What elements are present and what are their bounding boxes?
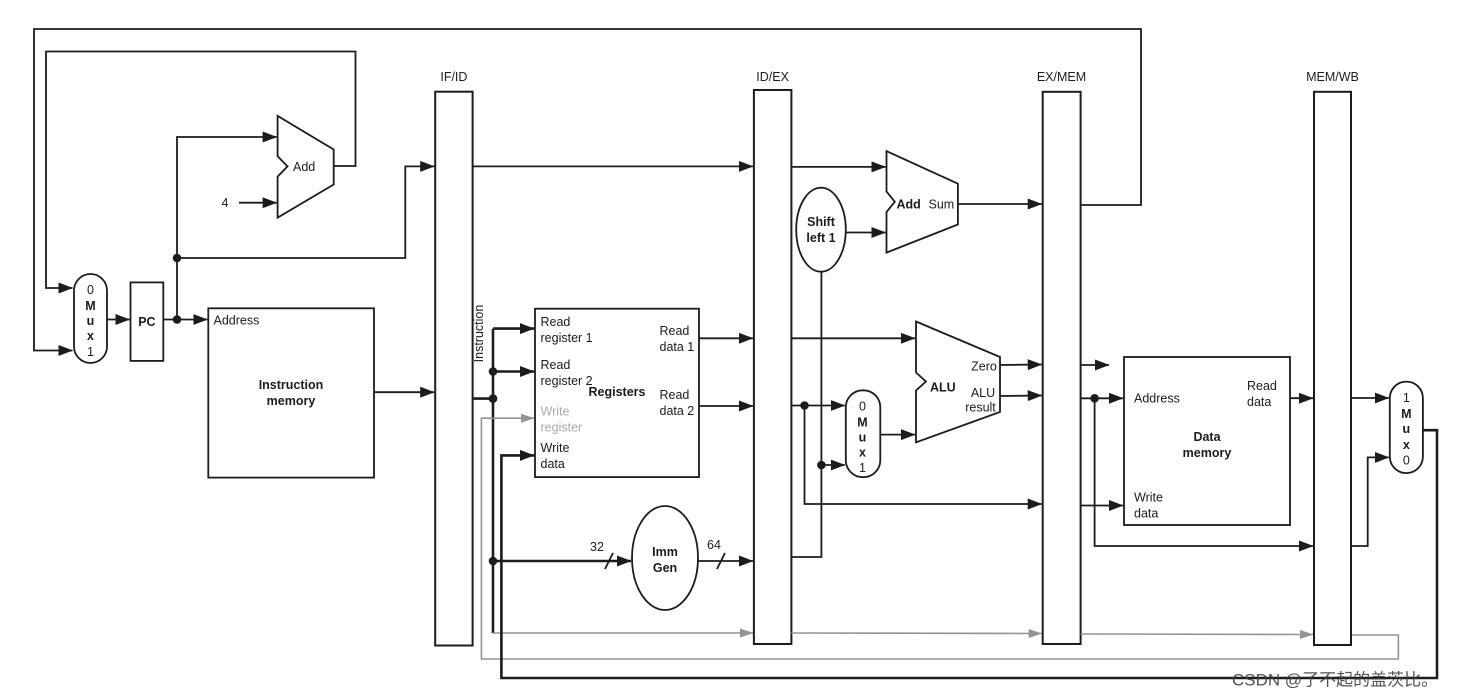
component Registers (535, 309, 699, 477)
slash 32 (605, 553, 613, 569)
wire Mux2 to ALU input 2 (880, 434, 915, 436)
wire Read data 1 to ID/EX (699, 337, 753, 339)
svg-text:Read: Read (660, 388, 690, 402)
pipeline register EX/MEM (1037, 70, 1086, 644)
svg-text:memory: memory (267, 394, 316, 408)
slash 64 (717, 553, 725, 569)
svg-text:64: 64 (707, 538, 721, 552)
adder Add2 (887, 151, 958, 253)
svg-text:0: 0 (87, 283, 94, 297)
wire PC+4 loop from Add1 output to Mux1 input 0 (46, 52, 356, 289)
wire immediate from ID/EX up to Shift left 1 (791, 272, 821, 558)
wire to Read register 1 (493, 327, 534, 330)
wire read data to Mux3 input 1 (1351, 397, 1389, 399)
wire ALU result to Data memory Address (1081, 397, 1123, 399)
svg-text:register 2: register 2 (541, 374, 593, 388)
component Instruction memory (208, 308, 374, 477)
node ALU result junction (1090, 394, 1099, 403)
svg-text:left 1: left 1 (806, 231, 835, 245)
wire ALU result to Mux3 input 0 (1351, 457, 1389, 546)
wire read data 2 down to EX/MEM (memory write data) (805, 406, 1042, 505)
pipeline register IF/ID (435, 70, 472, 646)
svg-text:1: 1 (859, 461, 866, 475)
component Imm Gen (632, 506, 698, 610)
svg-text:Shift: Shift (807, 215, 836, 229)
svg-text:x: x (1403, 438, 1410, 452)
svg-text:Data: Data (1193, 430, 1221, 444)
svg-text:IF/ID: IF/ID (440, 70, 467, 84)
pipeline register ID/EX (754, 70, 792, 644)
wire destination register tap to ID/EX (gray) (493, 632, 753, 634)
wire Instruction memory output to IF/ID (374, 391, 434, 393)
node imm gen junction (489, 557, 498, 566)
svg-text:M: M (1401, 407, 1411, 421)
svg-text:data: data (1247, 395, 1271, 409)
wire Shift left 1 to Add2 bottom input (846, 232, 886, 234)
wire write data feedback (black) (501, 430, 1437, 678)
mux M1 (74, 274, 107, 363)
wire instruction bus vertical (492, 329, 495, 633)
svg-text:Read: Read (1247, 379, 1277, 393)
wire Read data to MEM/WB (1290, 397, 1313, 399)
wire ID/EX to ALU input 1 (791, 337, 915, 339)
svg-text:CSDN @了不起的盖茨比。: CSDN @了不起的盖茨比。 (1232, 671, 1438, 690)
wire Zero stub out of EX/MEM (1081, 364, 1109, 366)
wire Mux1 to PC (107, 319, 130, 321)
svg-text:data 1: data 1 (660, 340, 695, 354)
svg-text:Gen: Gen (653, 561, 677, 575)
svg-text:Instruction: Instruction (259, 378, 324, 392)
svg-text:M: M (857, 416, 867, 430)
svg-text:ALU: ALU (930, 381, 956, 395)
svg-text:1: 1 (87, 345, 94, 359)
pipeline register MEM/WB (1306, 70, 1359, 645)
alu ALU (916, 322, 1000, 443)
svg-text:Registers: Registers (589, 385, 646, 399)
wire PC to IF/ID (177, 166, 434, 258)
wire to Read register 2 (493, 370, 534, 373)
node PC output junction (173, 315, 182, 324)
adder Add1 (278, 116, 334, 218)
wire gray destination register ID/EX to EX/MEM (791, 632, 1041, 635)
register PC (131, 282, 164, 361)
wire Read data 2 to ID/EX (699, 405, 753, 407)
component Shift left 1 (796, 188, 846, 272)
wire Sum to EX/MEM (958, 203, 1042, 205)
svg-text:0: 0 (1403, 454, 1410, 468)
svg-text:Read: Read (541, 315, 571, 329)
svg-text:Write: Write (541, 405, 570, 419)
svg-text:EX/MEM: EX/MEM (1037, 70, 1086, 84)
node read data 2 junction (800, 401, 809, 410)
svg-text:Read: Read (541, 358, 571, 372)
svg-text:data: data (1134, 507, 1158, 521)
wire PC vertical riser (177, 137, 277, 320)
wire gray destination register EX/MEM to MEM/WB (1081, 633, 1313, 636)
wire constant 4 into Add1 (239, 202, 277, 204)
svg-text:ID/EX: ID/EX (756, 70, 789, 84)
wire branch-target loop from EX/MEM to Mux1 input 1 (34, 29, 1141, 351)
svg-text:Instruction: Instruction (472, 305, 486, 363)
svg-text:PC: PC (138, 315, 155, 329)
svg-text:result: result (965, 401, 996, 415)
wire write register feedback (gray) (481, 418, 1398, 659)
wire ALU result to EX/MEM (1000, 395, 1042, 398)
svg-text:0: 0 (859, 400, 866, 414)
svg-text:Read: Read (660, 324, 690, 338)
wire to Imm Gen (493, 560, 631, 563)
svg-text:Address: Address (214, 314, 260, 328)
svg-text:data 2: data 2 (660, 404, 695, 418)
svg-text:Sum: Sum (929, 198, 955, 212)
wire immediate to Mux2 input 1 (821, 464, 844, 466)
wire IF/ID to ID/EX top (PC pass) (473, 165, 753, 167)
wire Zero to EX/MEM (1000, 364, 1042, 367)
svg-text:register 1: register 1 (541, 331, 593, 345)
node read register 2 junction (489, 367, 498, 376)
svg-text:register: register (541, 421, 583, 435)
node instruction junction (489, 394, 498, 403)
wire Imm Gen output to ID/EX (698, 560, 753, 562)
svg-text:Zero: Zero (971, 360, 997, 374)
svg-text:Add: Add (293, 160, 315, 174)
node PC riser junction (173, 254, 182, 263)
wire instruction out of IF/ID (473, 397, 493, 400)
svg-text:1: 1 (1403, 391, 1410, 405)
wire memory write data into Data memory (1081, 505, 1123, 507)
svg-text:Imm: Imm (652, 545, 678, 559)
svg-text:Write: Write (541, 441, 570, 455)
svg-text:u: u (859, 431, 867, 445)
svg-text:32: 32 (590, 540, 604, 554)
svg-text:ALU: ALU (971, 386, 995, 400)
svg-text:Address: Address (1134, 392, 1180, 406)
wire PC output to Instruction memory Address (163, 319, 207, 321)
svg-text:u: u (87, 314, 95, 328)
svg-text:4: 4 (222, 196, 229, 210)
svg-text:Write: Write (1134, 491, 1163, 505)
component Data memory (1124, 357, 1290, 525)
svg-text:u: u (1402, 422, 1410, 436)
svg-text:memory: memory (1183, 446, 1232, 460)
svg-text:M: M (85, 299, 95, 313)
svg-text:MEM/WB: MEM/WB (1306, 70, 1359, 84)
wire ID/EX to Add2 top input (791, 166, 885, 168)
svg-text:data: data (541, 457, 565, 471)
svg-text:x: x (859, 446, 866, 460)
svg-text:Add: Add (897, 198, 921, 212)
node immediate junction (817, 461, 826, 470)
wire ALU result down to MEM/WB (1095, 398, 1313, 546)
wire ID/EX read data 2 to Mux2 input 0 (791, 405, 844, 407)
svg-text:x: x (87, 329, 94, 343)
mux M2 (846, 390, 881, 477)
mux M3 (1390, 382, 1423, 474)
